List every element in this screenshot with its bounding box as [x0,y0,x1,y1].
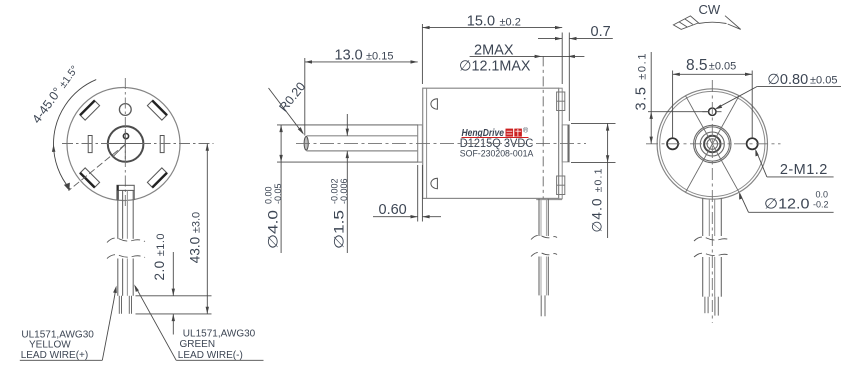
svg-text:-0.2: -0.2 [813,200,829,210]
rear horizontal centerline [646,143,781,145]
vent slot NE [147,100,167,120]
dim phi0.80 leader [757,85,841,87]
dim phi4.0 left extensions [277,124,418,126]
vent slot SW [80,168,100,188]
svg-text:2-M1.2: 2-M1.2 [780,162,828,178]
diagonal construction line 1 [686,96,740,193]
rear crimp tab bottom [557,176,565,195]
45 degree dashed line [69,144,126,191]
svg-text:0.60: 0.60 [379,202,407,218]
right view dimensions [634,2,842,213]
can bottom step [537,198,562,199]
dim 0.7 lines [538,38,562,40]
lead wires lower segment [117,259,119,296]
svg-text:-0.002: -0.002 [330,178,340,204]
svg-text:0.7: 0.7 [591,24,611,40]
svg-text:∅12.0: ∅12.0 [764,197,810,213]
rear crimp tab top [557,92,565,111]
svg-text:13.0: 13.0 [335,48,363,64]
dim 13.0 line [305,61,418,63]
stripped conductor left [118,296,120,314]
dim phi4.0 right extensions [571,122,616,124]
rear wire break waves [694,237,731,241]
dim 13.0 extension [304,58,306,136]
svg-text:GREEN: GREEN [180,339,216,350]
svg-text:®: ® [523,127,529,135]
diagonal construction line 2 [686,96,740,193]
rear bearing boss [562,125,569,162]
vent slot NW [80,100,100,120]
shaft tip round [304,137,308,151]
wire grommet tab [117,185,134,190]
svg-text:±0.2: ±0.2 [500,16,521,28]
leader yellow wire [102,289,116,361]
dim 2MAX / 12.1MAX leader [470,55,585,57]
svg-text:LEAD WIRE(-): LEAD WIRE(-) [178,350,243,361]
middle lead wire upper [538,199,540,236]
svg-text:2MAX: 2MAX [474,42,514,58]
svg-text:-0.006: -0.006 [339,178,349,204]
svg-text:LEAD WIRE(+): LEAD WIRE(+) [21,350,89,361]
svg-text:∅0.80: ∅0.80 [767,72,808,88]
lead wires upper segment [117,191,119,239]
front bearing boss [418,125,423,162]
svg-text:∅1.5: ∅1.5 [332,210,347,249]
hub circles [694,125,731,162]
top balance hole [119,104,131,116]
vent slot SE [147,168,167,188]
CW arrowhead [725,16,741,30]
rear lead wires [702,198,704,236]
CW arrow arc [699,22,727,23]
svg-text:±0.05: ±0.05 [810,75,837,87]
middle view dimensions [264,13,616,253]
rear stripped conductors [704,297,706,314]
dim phi4.0 left text [264,183,284,249]
svg-text:43.0 ±3.0: 43.0 ±3.0 [188,212,203,263]
CW arrow tail [673,16,698,30]
dim 15.0 extension [421,24,423,84]
dimension 2.0 line [172,252,174,296]
dim 15.0 line [422,27,562,29]
dim phi1.5 text [330,178,350,249]
right screw hole [747,138,758,149]
shaft centerline [296,142,586,144]
front plate inner line [426,88,428,198]
dim 8.5 line [673,73,753,75]
internal dashed line [542,56,544,198]
dim phi12.0 leader [749,211,834,213]
right side slot [160,136,164,153]
angular dimension arc 4-45.0 [54,80,97,189]
rear endcap [559,88,563,199]
front view outer circle [67,88,180,201]
svg-text:±0.15: ±0.15 [366,51,393,63]
top 0.80 hole [709,108,716,115]
R0.20 leader [269,88,303,133]
dim phi1.5 line [346,114,348,136]
dim 0.7 extensions [561,33,563,85]
rear view outer circle [657,89,767,199]
svg-text:-0.05: -0.05 [273,183,283,204]
leader green wire [135,286,176,360]
rear view inner circle [660,91,765,196]
svg-text:±0.05: ±0.05 [709,61,736,73]
extension line wire tip [136,313,212,315]
front hub circle [108,126,144,162]
D mark bottom [431,178,437,189]
svg-text:CW: CW [699,2,721,17]
motor can body [423,88,559,198]
dim 8.5 extensions [672,71,674,139]
hole ticks [702,111,708,113]
svg-text:8.5: 8.5 [686,57,708,74]
rear vertical centerline [711,80,713,323]
svg-text:0.00: 0.00 [264,186,274,204]
wire break lower wave [107,255,145,259]
svg-text:UL1571,AWG30: UL1571,AWG30 [183,328,256,339]
stripped conductor right [128,296,130,314]
dimension 43.0 line [206,144,208,314]
horizontal centerline [62,143,214,145]
dim 3.5 line [650,52,652,144]
dim 0.60 extensions [417,165,419,222]
dim phi4.0 right line [607,123,609,238]
rear lead wires lower [702,257,704,297]
dim 2-M1.2 leader [767,176,834,178]
svg-text:SOF-230208-001A: SOF-230208-001A [460,149,534,159]
shaft [307,136,418,151]
middle wire break waves [531,235,557,239]
dim 0.60 lines [373,216,418,218]
dim 3.5 extension [648,111,709,113]
extension line insulation end [136,295,212,297]
svg-text:2.0 ±1.0: 2.0 ±1.0 [152,234,167,281]
vertical centerline [124,78,126,207]
shaft dot [123,134,128,139]
svg-text:0.0: 0.0 [816,190,829,200]
left screw hole [667,138,678,149]
hub solid centerline segments [109,143,143,145]
D mark top [431,99,437,110]
svg-text:∅12.1MAX: ∅12.1MAX [459,58,531,74]
wire break upper wave [107,238,145,242]
svg-text:15.0: 15.0 [467,13,495,29]
left side slot [88,136,92,153]
middle lead wire lower [538,257,540,296]
svg-text:∅4.0: ∅4.0 [266,210,281,249]
svg-text:∅4.0 ±0.1: ∅4.0 ±0.1 [590,168,605,232]
dim phi4.0 left line [280,125,282,253]
left view dimensions [20,144,264,361]
middle stripped conductor [540,295,542,316]
